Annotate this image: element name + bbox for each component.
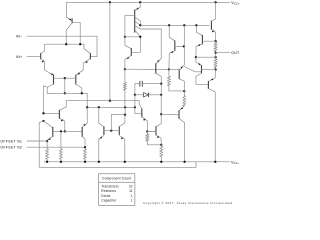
wire Q3-Q4 base tie: [54, 77, 76, 79]
node on VCC- rail: [160, 161, 162, 163]
wire Q10 base: [131, 37, 140, 53]
wire: [134, 95, 136, 108]
wire Q2 emitter to Q3: [45, 70, 54, 75]
transistor Q22: [196, 25, 203, 57]
wire Q7 collector: [59, 101, 66, 111]
node: [168, 24, 170, 26]
node: [64, 77, 66, 79]
node: [124, 36, 126, 38]
label IN+: [16, 55, 22, 59]
wire Q13 base loop: [125, 16, 140, 37]
transistor Q23: [208, 70, 215, 162]
node: [139, 36, 141, 38]
transistor Q7: [59, 110, 64, 131]
node: [46, 140, 48, 142]
node on VCC+ rail: [214, 1, 216, 3]
label OFFSET N1: [0, 139, 22, 143]
node: [60, 130, 62, 132]
transistor Q14: [211, 2, 215, 41]
wire Q22 base: [202, 40, 215, 42]
resistor R4: [123, 69, 126, 107]
wire: [124, 107, 126, 114]
transistor Q2: [41, 44, 45, 70]
transistor Q15: [169, 25, 175, 69]
wire VCC+ center column: [109, 2, 111, 100]
wire Q5-Q6 base tie: [53, 130, 82, 132]
node: [160, 144, 162, 146]
svg-text:OUT: OUT: [231, 51, 240, 55]
wire Q11-Q12 base tie: [104, 130, 119, 132]
label OFFSET N2: [0, 146, 22, 150]
svg-text:11: 11: [129, 189, 133, 193]
node: [86, 106, 88, 108]
node: [64, 92, 66, 94]
wire Q1 emitter to Q4: [76, 70, 83, 75]
label OUT: [231, 51, 240, 55]
node: [146, 130, 148, 132]
node: [65, 43, 67, 45]
transistor Q20: [169, 46, 184, 91]
component count table: [99, 174, 135, 206]
label VCC+: [231, 1, 240, 6]
wire diode connect: [111, 115, 125, 131]
resistor R8: [183, 91, 186, 106]
wire C1 left drop: [134, 84, 136, 95]
wire x184 column: [183, 25, 185, 46]
node on VCC- rail: [46, 161, 48, 163]
resistor R9: [214, 41, 217, 53]
wire Q3 collector branch: [44, 86, 48, 113]
svg-text:Copyright © 2017, Texas Instru: Copyright © 2017, Texas Instruments Inco…: [143, 201, 233, 205]
transistor Q17: [139, 101, 147, 132]
wire Q15 base: [175, 45, 184, 47]
svg-text:Component Count: Component Count: [102, 177, 131, 181]
transistor Q4: [76, 75, 82, 94]
node: [81, 92, 83, 94]
transistor Q21: [196, 57, 216, 84]
svg-text:IN+: IN+: [16, 55, 22, 59]
wire bias bus y69: [125, 68, 169, 70]
transistor Q1: [83, 44, 90, 70]
svg-text:OFFSET N1: OFFSET N1: [0, 139, 22, 143]
resistor R6: [160, 145, 163, 162]
transistor Q3: [47, 75, 53, 94]
wire OUT: [216, 52, 230, 54]
wire input-collector bus: [45, 43, 84, 45]
label VCC-: [231, 160, 240, 165]
node: [134, 94, 136, 96]
label IN-: [16, 34, 22, 38]
wire OFFSET N1: [27, 140, 47, 142]
node: [183, 24, 185, 26]
svg-text:1: 1: [131, 199, 133, 203]
wire gain bus y100.7: [66, 100, 139, 102]
wire base tap: [64, 78, 66, 93]
svg-text:Capacitor: Capacitor: [101, 199, 117, 203]
transistor Q19: [179, 106, 185, 162]
transistor Q6: [82, 107, 87, 147]
node: [183, 90, 185, 92]
node: [64, 130, 66, 132]
node: [139, 24, 141, 26]
node: [195, 24, 197, 26]
transistor Q10: [125, 37, 131, 69]
wire R2 drop: [60, 131, 62, 148]
node: [109, 100, 111, 102]
svg-text:22: 22: [129, 185, 133, 189]
copyright note: [143, 201, 233, 205]
node: [160, 83, 162, 85]
transistor Q8: [66, 2, 72, 44]
diode D1: [135, 93, 161, 97]
resistor R2: [59, 149, 62, 162]
transistor Q12: [119, 115, 125, 162]
node: [124, 113, 126, 115]
svg-text:Resistors: Resistors: [101, 189, 116, 193]
wire Q19 base: [161, 113, 179, 115]
wire Q7 base: [44, 112, 60, 114]
transistor Q13: [135, 2, 141, 37]
wire collector finger y29: [140, 29, 161, 58]
wire OFFSET N2: [27, 146, 85, 148]
resistor R7: [167, 69, 184, 91]
transistor Q5: [44, 121, 53, 141]
node: [214, 56, 216, 58]
svg-text:1: 1: [131, 194, 133, 198]
capacitor C1: [135, 81, 161, 87]
node: [124, 68, 126, 70]
wire bus y107.3: [87, 106, 135, 108]
transistor Q18: [156, 114, 161, 145]
node: [98, 106, 100, 108]
node: [42, 112, 44, 114]
wire Q17 base: [135, 107, 142, 113]
node: [195, 56, 197, 58]
wire out tap: [196, 56, 216, 58]
node on VCC- rail: [98, 161, 100, 163]
node: [110, 129, 112, 131]
wire Q18 base: [147, 131, 156, 133]
node: [84, 146, 86, 148]
svg-text:IN−: IN−: [16, 34, 22, 38]
svg-text:CC−: CC−: [234, 161, 240, 165]
node: [79, 43, 81, 45]
wire IN- to Q1 base: [27, 36, 97, 57]
node: [42, 120, 44, 122]
resistor R5: [146, 132, 161, 145]
wire y93 drop: [86, 93, 88, 107]
node: [214, 68, 216, 70]
node on VCC- rail: [60, 161, 62, 163]
resistor R10: [214, 53, 217, 70]
transistor Q16: [156, 58, 161, 83]
node: [134, 106, 136, 108]
power rail VCC-: [44, 161, 229, 163]
transistor Q11: [99, 107, 104, 162]
resistor R1: [46, 141, 49, 162]
node: [183, 45, 185, 47]
svg-text:Diode: Diode: [101, 194, 110, 198]
resistor R3: [84, 149, 87, 162]
node on VCC+ rail: [109, 1, 111, 3]
node on VCC- rail: [84, 161, 86, 163]
node: [160, 113, 162, 115]
power rail VCC+: [67, 1, 230, 3]
node: [214, 40, 216, 42]
node on VCC- rail: [183, 161, 185, 163]
wire offset jog: [39, 121, 196, 167]
wire IN+ to Q2 base: [27, 56, 41, 58]
wire mirror bus y93: [47, 92, 87, 94]
svg-text:OFFSET N2: OFFSET N2: [0, 146, 22, 150]
node: [160, 94, 162, 96]
wire Q20 to Q21 base: [184, 67, 201, 72]
svg-text:Transistors: Transistors: [101, 185, 119, 189]
node on VCC- rail: [214, 161, 216, 163]
wire collector bus y25.3: [140, 24, 209, 26]
wire gain column x161: [160, 84, 162, 115]
node: [214, 52, 216, 54]
node on VCC+ rail: [139, 1, 141, 3]
wire Q8 base: [72, 22, 80, 44]
node: [124, 106, 126, 108]
node on VCC- rail: [124, 161, 126, 163]
svg-text:CC+: CC+: [234, 2, 240, 6]
node: [168, 68, 170, 70]
